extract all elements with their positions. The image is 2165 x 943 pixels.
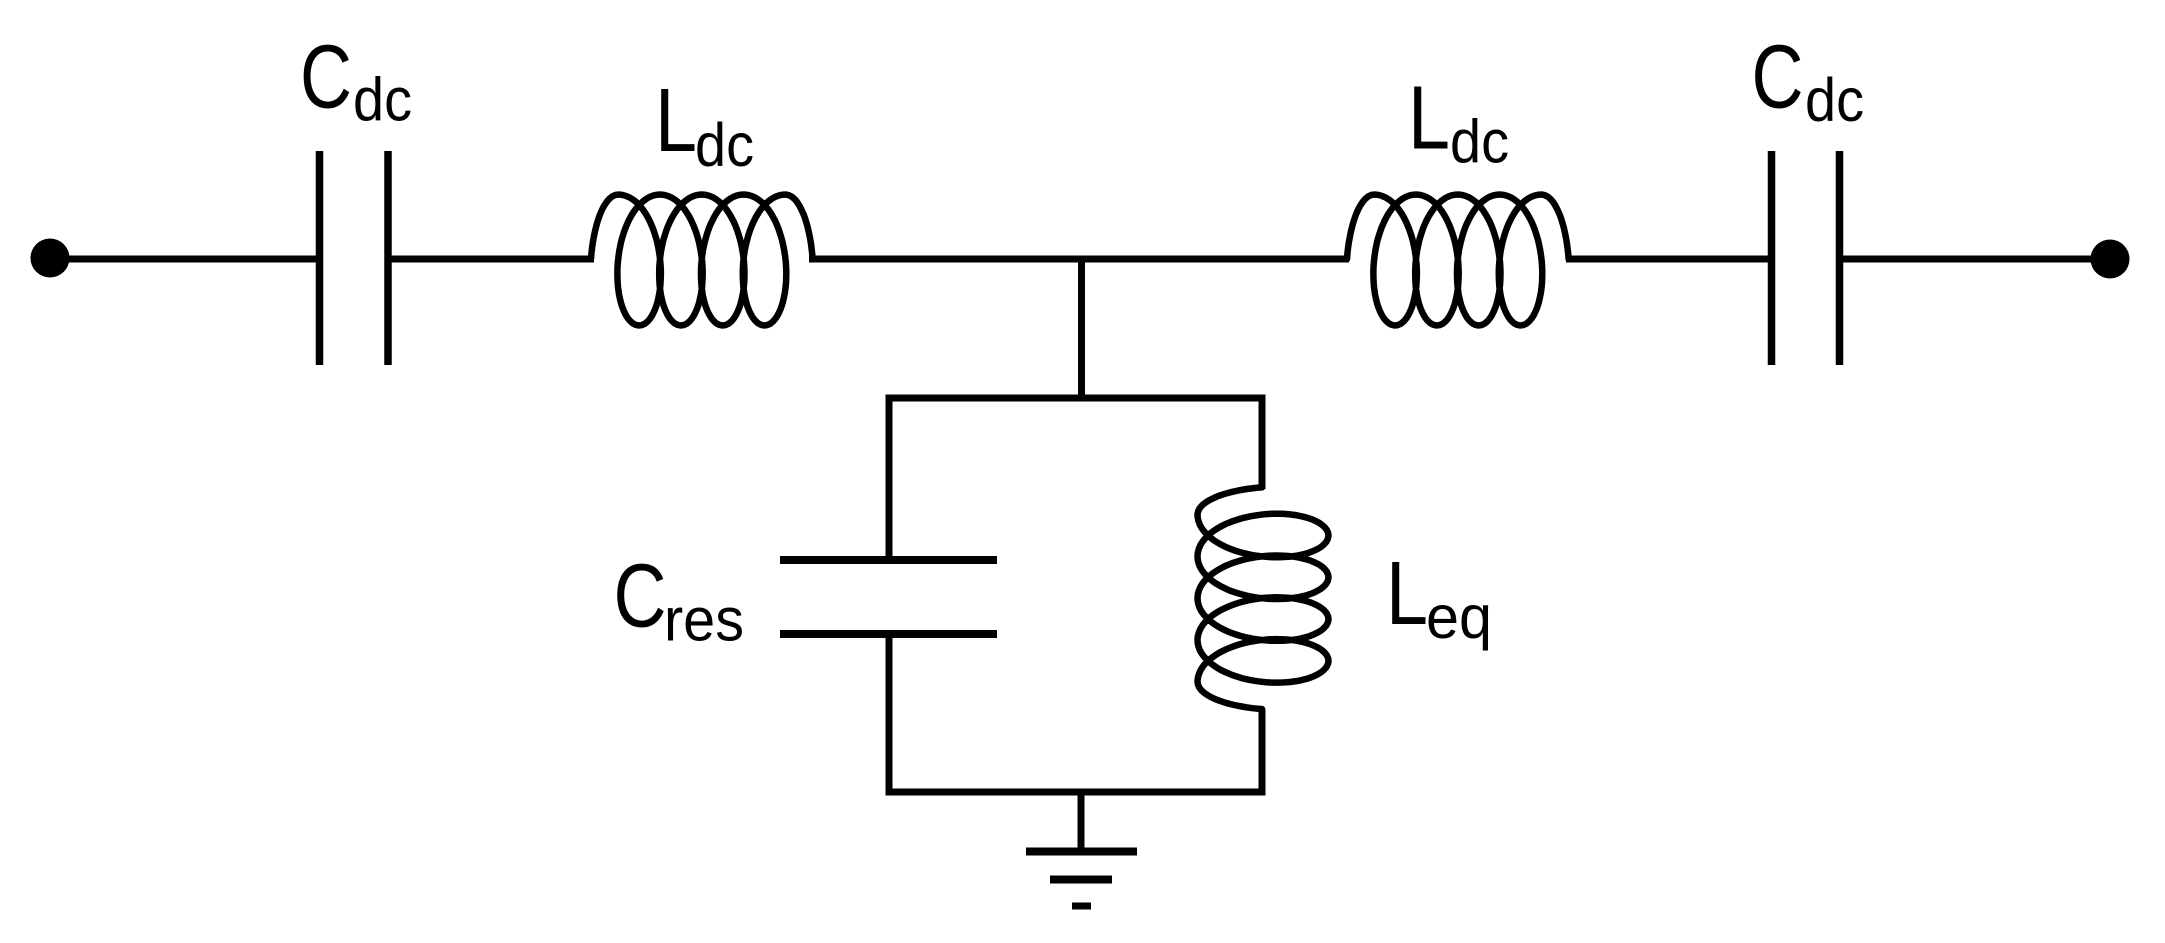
wire: left port to C_dc left plate (50, 256, 316, 263)
wire: box right upper leg (1259, 398, 1266, 489)
inductor L_dc (left) (591, 195, 813, 326)
wire: L_dc (right) to C_dc (right) (1566, 256, 1768, 263)
capacitor C_res: bottom plate (780, 630, 997, 638)
svg-text:dc: dc (353, 66, 412, 134)
svg-text:L: L (1408, 69, 1450, 169)
wire: L_dc (left) to L_dc (right) through T-junction (809, 256, 1349, 263)
ground: stub (1078, 792, 1085, 851)
capacitor C_dc (right): left plate (1768, 151, 1776, 365)
svg-text:C: C (614, 547, 667, 647)
node: right port terminal dot (2091, 240, 2130, 279)
wire: box left lower leg (886, 634, 893, 796)
ground: bar 3 (1072, 903, 1091, 910)
svg-text:L: L (1386, 544, 1428, 644)
svg-text:L: L (655, 71, 697, 171)
svg-text:eq: eq (1426, 583, 1492, 651)
capacitor C_dc (right): right plate (1836, 151, 1844, 365)
capacitor C_dc (left): left plate (316, 151, 324, 365)
wire: T-junction vertical drop (1078, 259, 1085, 402)
inductor L_eq (vertical coil) (1198, 487, 1329, 709)
capacitor C_res: top plate (780, 556, 997, 564)
svg-text:C: C (300, 28, 352, 128)
node: left port terminal dot (31, 239, 70, 278)
label C_dc (right) (1752, 28, 1865, 135)
svg-text:dc: dc (1805, 66, 1864, 134)
svg-text:dc: dc (695, 111, 754, 179)
svg-text:C: C (1752, 28, 1804, 128)
capacitor C_dc (left): right plate (384, 151, 392, 365)
label L_eq (1386, 544, 1492, 651)
svg-text:dc: dc (1450, 108, 1509, 176)
wire: box right lower leg (1259, 709, 1266, 796)
wire: C_dc to L_dc (left) (392, 256, 595, 263)
wire: C_dc (right) to right port (1843, 256, 2110, 263)
ground: bar 2 (1050, 876, 1112, 884)
label C_res (614, 547, 745, 654)
svg-text:res: res (664, 586, 744, 654)
label L_dc (left) (655, 71, 754, 179)
wire: shunt box top (886, 395, 1266, 402)
inductor L_dc (right) (1347, 195, 1569, 326)
label L_dc (right) (1408, 69, 1509, 176)
wire: box left upper leg (886, 398, 893, 560)
label C_dc (left) (300, 28, 412, 134)
wire: box bottom (886, 789, 1266, 796)
ground: bar 1 (1026, 848, 1137, 856)
